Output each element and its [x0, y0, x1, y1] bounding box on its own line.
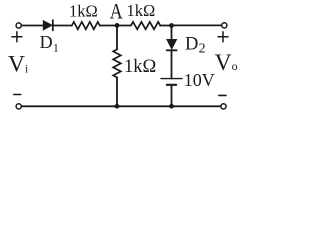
resistor R3 1kOhm (vertical) — [113, 49, 121, 77]
diode D2 (pointing down) — [167, 40, 177, 51]
plus sign right — [218, 32, 228, 42]
wire battery to bottom rail — [171, 85, 173, 106]
minus sign left — [14, 94, 21, 96]
bottom junction dot under battery — [169, 104, 174, 109]
plus sign left — [12, 32, 22, 42]
battery 10V short plate — [167, 84, 176, 86]
output terminal + (top right open circle) — [222, 23, 227, 28]
wire node down to diode D2 — [171, 26, 173, 40]
wire D1 to R1 — [53, 25, 72, 27]
svg-text:1kΩ: 1kΩ — [124, 57, 156, 77]
resistor R1 1kOhm (horizontal) — [72, 22, 100, 29]
wire top-left terminal to D1 — [22, 25, 44, 27]
battery 10V long plate — [161, 78, 182, 80]
resistor R2 1kOhm (horizontal) — [131, 22, 160, 29]
input terminal + (top left open circle) — [16, 23, 21, 28]
minus sign right — [219, 94, 226, 96]
svg-text:Vo: Vo — [215, 50, 238, 76]
D2-branch top junction dot — [169, 23, 174, 28]
wire R2 to D2 node — [160, 25, 171, 27]
wire node A to R2 — [117, 25, 131, 27]
svg-text:D1: D1 — [40, 32, 59, 55]
wire node to output terminal — [172, 24, 222, 26]
svg-text:10V: 10V — [184, 70, 215, 90]
bottom rail wire — [22, 105, 221, 107]
wire R3 to bottom rail — [116, 77, 118, 106]
wire D2 to battery — [171, 50, 173, 78]
output terminal - (bottom right open circle) — [221, 104, 226, 109]
svg-text:1kΩ: 1kΩ — [69, 1, 98, 20]
wire node A down to R3 — [116, 26, 118, 50]
node A junction dot — [115, 23, 120, 28]
wire R1 to node A — [100, 25, 117, 27]
svg-text:D2: D2 — [185, 35, 206, 57]
bottom junction dot under R3 — [115, 104, 120, 109]
diode D1 — [43, 20, 53, 30]
input terminal - (bottom left open circle) — [16, 104, 21, 109]
svg-text:Vi: Vi — [8, 51, 28, 77]
svg-text:A: A — [110, 0, 124, 24]
svg-text:1kΩ: 1kΩ — [127, 1, 156, 20]
